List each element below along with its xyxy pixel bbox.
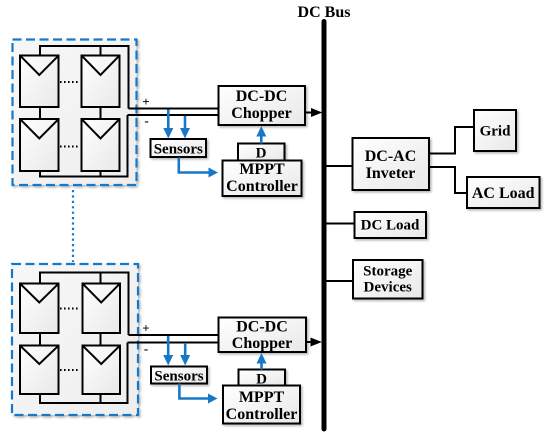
- D box 1: [238, 144, 285, 162]
- wire: array1 top bus: [40, 46, 129, 109]
- svg-text:Sensors: Sensors: [154, 142, 203, 158]
- dotted link row2 array2: [60, 369, 80, 371]
- wire: chopper1 output arrow: [305, 108, 322, 117]
- wire: D1 to chopper1 (blue arrow): [256, 126, 266, 144]
- wire: array2 bottom bus: [40, 343, 128, 404]
- PV panel A3: [20, 119, 59, 171]
- wire: - line array1 to chopper1: [128, 114, 220, 116]
- Storage Devices box: [353, 260, 423, 299]
- svg-text:Chopper: Chopper: [232, 335, 292, 352]
- PV array 1 enclosure: [13, 40, 137, 186]
- sensor tap arrow 1a (blue): [163, 110, 173, 139]
- svg-text:DC Bus: DC Bus: [298, 4, 351, 21]
- svg-text:Storage: Storage: [363, 264, 412, 280]
- svg-text:AC Load: AC Load: [472, 185, 535, 202]
- dotted link row1 array2: [60, 308, 80, 310]
- svg-text:MPPT: MPPT: [239, 161, 285, 178]
- PV panel A1: [20, 56, 59, 108]
- svg-text:D: D: [256, 146, 267, 162]
- wire: - line array2 to chopper2: [128, 342, 220, 344]
- PV panel B2: [83, 284, 121, 334]
- wire: sensors2 to MPPT2 (blue): [179, 384, 217, 404]
- PV panel A4: [82, 119, 120, 171]
- Grid box: [474, 110, 516, 151]
- sensor tap arrow 1b (blue): [180, 116, 190, 139]
- svg-text:-: -: [144, 341, 148, 356]
- wire: D2 to chopper2 (blue arrow): [257, 353, 267, 370]
- PV panel B4: [83, 346, 121, 395]
- MPPT Controller 2: [223, 386, 300, 424]
- DC bus bar: [322, 22, 327, 430]
- DC Load box: [355, 212, 427, 238]
- MPPT Controller 1: [223, 161, 302, 197]
- Sensors box 2: [151, 367, 207, 385]
- svg-text:Controller: Controller: [226, 406, 298, 423]
- svg-text:DC-AC: DC-AC: [365, 148, 417, 165]
- svg-text:Inveter: Inveter: [366, 165, 416, 182]
- wire: sensors1 to MPPT1 (blue): [179, 158, 218, 178]
- wire: inverter to AC load: [429, 167, 466, 193]
- PV array 2 enclosure: [12, 264, 138, 415]
- DC-DC Chopper 2: [219, 318, 307, 353]
- wire: + line array2 to chopper2: [129, 334, 220, 336]
- svg-text:MPPT: MPPT: [239, 389, 285, 406]
- wire: chopper2 output arrow: [306, 338, 322, 347]
- sensor tap arrow 2b (blue): [180, 343, 190, 366]
- PV panel B1: [20, 284, 59, 334]
- wire: array1 series links: [40, 107, 101, 119]
- svg-text:Sensors: Sensors: [154, 369, 203, 385]
- sensor tap arrow 2a (blue): [163, 336, 173, 366]
- svg-text:DC Load: DC Load: [361, 218, 420, 234]
- svg-text:DC-DC: DC-DC: [236, 88, 288, 105]
- PV panel A2: [82, 56, 120, 108]
- dotted link row2 array1: [60, 146, 80, 148]
- Sensors box 1: [151, 139, 207, 158]
- wire: array1 bottom bus: [40, 115, 128, 177]
- DC-AC Inveter box: [353, 138, 430, 190]
- svg-text:+: +: [142, 94, 149, 109]
- AC Load box: [467, 177, 540, 208]
- DC-DC Chopper 1: [219, 86, 306, 125]
- wire: array2 top bus: [40, 273, 129, 336]
- wire: array2 series links: [40, 333, 101, 346]
- PV panel B3: [20, 346, 59, 395]
- wire: + line array1 to chopper1: [129, 108, 220, 110]
- wire: bus to inverter: [326, 165, 353, 167]
- svg-text:Grid: Grid: [480, 124, 511, 140]
- svg-text:Devices: Devices: [364, 280, 412, 296]
- wire: inverter to grid: [429, 127, 473, 154]
- dotted link row1 array1: [60, 81, 80, 83]
- dotted array link (blue): [72, 190, 74, 262]
- svg-text:Controller: Controller: [226, 178, 298, 195]
- svg-text:DC-DC: DC-DC: [236, 319, 288, 336]
- wire: bus to DC load: [326, 223, 355, 225]
- svg-text:Chopper: Chopper: [231, 105, 291, 122]
- D box 2: [239, 370, 286, 388]
- svg-text:+: +: [142, 321, 149, 336]
- wire: bus to storage: [326, 280, 354, 282]
- svg-text:-: -: [144, 113, 148, 128]
